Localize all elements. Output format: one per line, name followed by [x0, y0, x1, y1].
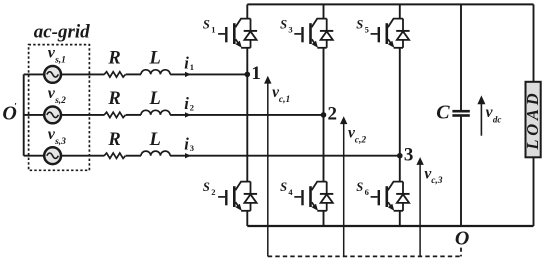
wire: bus to source v_s,1 — [24, 73, 45, 75]
svg-text:L: L — [149, 49, 161, 69]
svg-text:L: L — [149, 130, 161, 150]
wire: source to resistor R (phase 3) — [61, 155, 104, 157]
wire: leg 3 midsection (S5 emitter to S6 collector) — [399, 48, 401, 182]
current arrow i_2 — [185, 112, 191, 117]
svg-text:i: i — [184, 53, 189, 72]
current arrow i_1 — [185, 72, 191, 77]
svg-text:c,1: c,1 — [279, 95, 290, 105]
wire: S4 emitter to bottom rail — [323, 211, 325, 226]
svg-text:S: S — [203, 180, 210, 194]
wire: inductor to node 3 — [170, 155, 400, 157]
dashed wire: measurement return (horizontal) — [268, 255, 461, 257]
voltage arrow v_dc (head) — [477, 95, 485, 104]
svg-text:LOAD: LOAD — [523, 90, 542, 151]
dashed box: ac-grid enclosure — [29, 45, 90, 171]
wire: right rail bottom segment from LOAD — [533, 157, 535, 226]
svg-text:R: R — [107, 130, 120, 150]
capacitor C plate (top) — [452, 110, 469, 113]
ac voltage source v_s,2 (circle with sine) — [44, 107, 61, 124]
transistor S6 (IGBT with antiparallel diode) — [371, 182, 410, 211]
svg-text:2: 2 — [328, 104, 338, 125]
svg-text:O: O — [455, 227, 469, 249]
inductor L (phase 3) — [141, 151, 170, 156]
voltage arrow v_c,2 (line) — [343, 124, 345, 257]
svg-text:4: 4 — [288, 187, 293, 197]
transistor S4 (IGBT with antiparallel diode) — [294, 182, 333, 211]
resistor R (phase 1) — [104, 72, 125, 77]
voltage arrow v_c,1 (head) — [264, 76, 271, 84]
svg-text:3: 3 — [288, 24, 292, 34]
current arrow i_3 — [185, 153, 191, 158]
resistor R (phase 2) — [104, 112, 125, 117]
svg-text:S: S — [280, 17, 287, 31]
wire: right rail top segment to LOAD — [533, 4, 535, 82]
svg-text:s,3: s,3 — [54, 137, 66, 147]
voltage arrow v_c,3 (head) — [416, 157, 423, 165]
svg-text:L: L — [149, 89, 161, 109]
wire: source to resistor R (phase 2) — [61, 114, 104, 116]
svg-text:6: 6 — [365, 187, 369, 197]
svg-text:5: 5 — [365, 24, 369, 34]
node 3 (dot) — [397, 153, 403, 159]
wire: leg 2 midsection (S3 emitter to S4 collector) — [323, 48, 325, 182]
transistor S5 (IGBT with antiparallel diode) — [371, 19, 410, 48]
transistor S2 (IGBT with antiparallel diode) — [218, 182, 257, 211]
wire: left neutral bus O' — [23, 74, 25, 155]
svg-text:1: 1 — [211, 24, 215, 34]
svg-text:i: i — [184, 135, 189, 154]
node 1 (dot) — [245, 72, 251, 78]
wire: inductor to node 1 — [170, 73, 247, 75]
voltage arrow v_c,1 (line) — [267, 83, 269, 256]
wire: bottom DC rail (negative bus) — [247, 225, 533, 227]
inductor L (phase 1) — [141, 70, 170, 75]
inductor L (phase 2) — [141, 110, 170, 115]
ac voltage source v_s,1 (circle with sine) — [44, 66, 61, 83]
wire: S6 emitter to bottom rail — [399, 211, 401, 226]
svg-text:′: ′ — [14, 103, 17, 113]
svg-text:S: S — [356, 17, 363, 31]
svg-text:S: S — [280, 180, 287, 194]
wire: S2 emitter to bottom rail — [246, 211, 248, 226]
load box (LOAD) — [526, 82, 541, 158]
voltage arrow v_c,3 (line) — [419, 165, 421, 257]
svg-text:S: S — [203, 17, 210, 31]
wire: top rail to S1 — [246, 4, 248, 18]
node 2 (dot) — [321, 112, 327, 118]
svg-text:1: 1 — [190, 62, 194, 72]
svg-text:3: 3 — [404, 144, 414, 165]
wire: resistor to inductor L (phase 1) — [126, 73, 141, 75]
wire: resistor to inductor L (phase 3) — [126, 155, 141, 157]
wire: bus to source v_s,3 — [24, 155, 45, 157]
wire: resistor to inductor L (phase 2) — [126, 114, 141, 116]
svg-text:i: i — [184, 94, 189, 113]
svg-text:s,1: s,1 — [54, 56, 66, 66]
voltage arrow v_dc (line) — [480, 104, 482, 136]
dashed wire: measurement return (vertical to O) — [460, 248, 462, 257]
ac voltage source v_s,3 (circle with sine) — [44, 147, 61, 164]
svg-text:c,3: c,3 — [431, 176, 443, 186]
wire: capacitor C to bottom rail — [460, 117, 462, 226]
transistor S3 (IGBT with antiparallel diode) — [294, 19, 333, 48]
svg-text:2: 2 — [190, 102, 194, 112]
svg-text:R: R — [107, 49, 120, 69]
wire: top DC rail (positive bus) — [247, 3, 533, 5]
wire: leg 1 midsection (S1 emitter to S2 collector) — [246, 48, 248, 182]
capacitor C plate (bottom) — [452, 114, 469, 117]
svg-text:S: S — [356, 180, 363, 194]
wire: source to resistor R (phase 1) — [61, 73, 104, 75]
svg-text:3: 3 — [190, 143, 194, 153]
wire: top rail to capacitor C — [460, 4, 462, 110]
voltage arrow v_c,2 (head) — [340, 116, 347, 124]
transistor S1 (IGBT with antiparallel diode) — [218, 19, 257, 48]
wire: top rail to S5 — [399, 4, 401, 18]
svg-text:dc: dc — [493, 115, 502, 125]
resistor R (phase 3) — [104, 153, 125, 158]
wire: inductor to node 2 — [170, 114, 323, 116]
svg-text:C: C — [436, 102, 450, 124]
svg-text:s,2: s,2 — [54, 96, 66, 106]
svg-text:R: R — [107, 89, 120, 109]
svg-text:c,2: c,2 — [355, 135, 367, 145]
svg-text:2: 2 — [211, 187, 215, 197]
svg-text:ac-grid: ac-grid — [34, 21, 90, 42]
wire: top rail to S3 — [323, 4, 325, 18]
svg-text:1: 1 — [251, 63, 261, 84]
wire: bus to source v_s,2 — [24, 114, 45, 116]
